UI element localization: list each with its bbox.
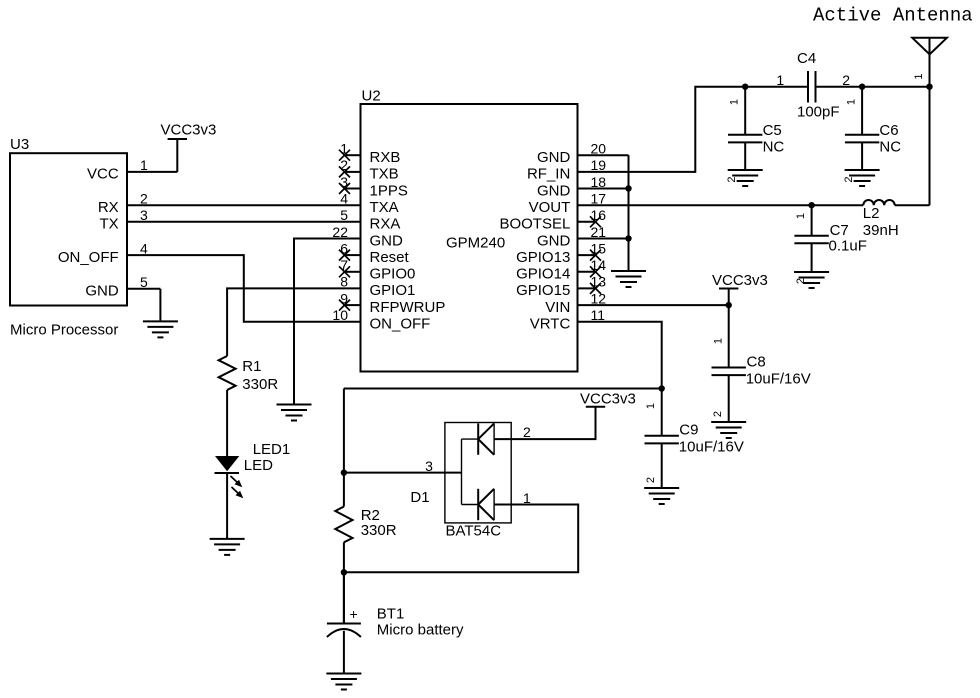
svg-text:330R: 330R bbox=[242, 376, 278, 393]
power symbol VCC3v3 at VIN bbox=[719, 289, 738, 306]
svg-text:VCC3v3: VCC3v3 bbox=[712, 272, 768, 289]
junction at GND pin21 bbox=[625, 235, 631, 241]
resistor R1 bbox=[219, 356, 236, 390]
svg-text:TXA: TXA bbox=[370, 199, 399, 216]
capacitor C8 bbox=[712, 305, 746, 422]
U2 pin 6 stub bbox=[345, 254, 361, 256]
junction at GND pin18 bbox=[625, 185, 631, 191]
svg-text:NC: NC bbox=[879, 139, 901, 156]
U2 pin 3 no-connect X bbox=[339, 183, 350, 194]
op-amp U2 GPM240 box bbox=[361, 104, 578, 372]
svg-text:GND: GND bbox=[537, 182, 571, 199]
ground at U2 pin22 bbox=[277, 405, 312, 421]
junction at D1 pin3 node bbox=[341, 469, 347, 475]
svg-text:BAT54C: BAT54C bbox=[446, 523, 502, 540]
ground at BT1 bbox=[326, 674, 361, 690]
capacitor C7 bbox=[794, 205, 828, 272]
svg-text:20: 20 bbox=[591, 141, 607, 157]
ground at C6 bbox=[845, 170, 880, 186]
svg-text:Micro battery: Micro battery bbox=[377, 621, 464, 638]
ground at C8 bbox=[711, 422, 746, 438]
U2 pin 14 stub bbox=[578, 271, 596, 273]
svg-text:VCC3v3: VCC3v3 bbox=[580, 390, 636, 407]
svg-text:3: 3 bbox=[140, 207, 148, 223]
capacitor C6 bbox=[845, 87, 879, 170]
LED LED1 diode triangle bbox=[215, 456, 239, 471]
U2 pin 7 no-connect X bbox=[339, 266, 350, 277]
wire C4 pin2 to antenna bbox=[816, 86, 930, 88]
svg-text:GND: GND bbox=[537, 232, 571, 249]
U2 pin 13 no-connect X bbox=[590, 283, 601, 294]
wire U2 GPIO1 pin8 to R1 bbox=[227, 288, 360, 356]
wire RX net U3 pin2 to U2 TXA pin4 bbox=[127, 204, 361, 206]
svg-text:+: + bbox=[350, 606, 358, 622]
svg-text:4: 4 bbox=[140, 240, 148, 256]
wire D1 pin1 to battery top node bbox=[344, 505, 578, 573]
svg-text:D1: D1 bbox=[410, 489, 429, 506]
svg-text:C4: C4 bbox=[797, 50, 816, 67]
svg-text:BT1: BT1 bbox=[377, 606, 405, 623]
svg-text:2: 2 bbox=[712, 411, 724, 417]
wire R2 to battery bbox=[343, 542, 345, 622]
junction at C7 top bbox=[808, 202, 814, 208]
svg-text:2: 2 bbox=[726, 176, 738, 182]
svg-text:21: 21 bbox=[591, 224, 607, 240]
U2 pin 13 stub bbox=[578, 287, 596, 289]
ground at U2 GND bus bbox=[611, 271, 646, 287]
svg-text:100pF: 100pF bbox=[797, 104, 840, 121]
svg-text:4: 4 bbox=[340, 191, 348, 207]
antenna Active Antenna symbol bbox=[912, 38, 947, 205]
U2 pin 15 no-connect X bbox=[590, 250, 601, 261]
svg-text:10uF/16V: 10uF/16V bbox=[746, 371, 811, 388]
svg-text:VRTC: VRTC bbox=[530, 316, 571, 333]
svg-text:RX: RX bbox=[98, 199, 119, 216]
junction at C6 top bbox=[859, 84, 865, 90]
ground at C7 bbox=[794, 272, 829, 288]
svg-text:VCC3v3: VCC3v3 bbox=[161, 122, 217, 139]
U2 pin 1 stub bbox=[345, 154, 361, 156]
svg-text:Active Antenna: Active Antenna bbox=[813, 4, 973, 26]
wire GND bus vertical bbox=[628, 155, 630, 271]
U2 pin 6 no-connect X bbox=[339, 250, 350, 261]
junction at battery top node bbox=[341, 569, 347, 575]
U2 pin 9 stub bbox=[345, 304, 361, 306]
svg-text:10: 10 bbox=[332, 307, 348, 323]
wire U3 VCC pin1 to VCC3v3 bbox=[127, 171, 177, 173]
svg-text:GND: GND bbox=[85, 283, 119, 300]
D1 bottom diode cathode bar and triangle bbox=[462, 489, 512, 520]
svg-text:1: 1 bbox=[728, 99, 740, 105]
wire LED1 to ground bbox=[226, 474, 228, 539]
svg-text:12: 12 bbox=[591, 290, 607, 306]
capacitor C9 bbox=[645, 389, 679, 489]
U2 pin 15 stub bbox=[578, 254, 596, 256]
svg-text:2: 2 bbox=[523, 424, 531, 440]
svg-text:1: 1 bbox=[140, 157, 148, 173]
ground at C9 bbox=[644, 488, 679, 504]
diode D1 BAT54C outline box bbox=[445, 423, 511, 523]
U2 pin 3 stub bbox=[345, 188, 361, 190]
wire ON_OFF net U3 pin4 to U2 ON_OFF pin10 bbox=[127, 255, 361, 322]
svg-text:Reset: Reset bbox=[370, 249, 410, 266]
svg-text:RXA: RXA bbox=[370, 216, 401, 233]
junction at C9 top bbox=[659, 385, 665, 391]
svg-text:TX: TX bbox=[100, 216, 119, 233]
svg-text:U3: U3 bbox=[10, 136, 29, 153]
svg-text:RFPWRUP: RFPWRUP bbox=[370, 299, 446, 316]
svg-text:GND: GND bbox=[370, 232, 404, 249]
svg-text:GPIO13: GPIO13 bbox=[516, 249, 570, 266]
svg-text:1: 1 bbox=[645, 403, 657, 409]
svg-text:C5: C5 bbox=[763, 122, 782, 139]
wire R1 to LED1 bbox=[226, 390, 228, 456]
wire battery net vertical top bbox=[343, 389, 345, 507]
svg-text:L2: L2 bbox=[863, 205, 880, 222]
capacitor C4 plates bbox=[808, 71, 816, 103]
wire U2 GND pin21 bbox=[578, 238, 629, 240]
svg-text:1: 1 bbox=[845, 99, 857, 105]
svg-text:ON_OFF: ON_OFF bbox=[370, 316, 431, 333]
power symbol VCC3v3 at D1 pin2 bbox=[586, 406, 605, 408]
svg-text:13: 13 bbox=[591, 274, 607, 290]
svg-text:TXB: TXB bbox=[370, 166, 399, 183]
svg-text:10uF/16V: 10uF/16V bbox=[679, 439, 744, 456]
svg-text:ON_OFF: ON_OFF bbox=[58, 249, 119, 266]
wire U2 VRTC pin11 to battery net bbox=[344, 322, 662, 389]
wire TX net U3 pin3 to U2 RXA pin5 bbox=[127, 221, 361, 223]
svg-text:Micro Processor: Micro Processor bbox=[10, 322, 118, 339]
svg-text:VCC: VCC bbox=[87, 166, 119, 183]
svg-text:5: 5 bbox=[340, 207, 348, 223]
U2 pin 14 no-connect X bbox=[590, 266, 601, 277]
U2 pin 7 stub bbox=[345, 271, 361, 273]
svg-text:LED: LED bbox=[244, 457, 273, 474]
wire U2 VIN pin12 to C8 bbox=[578, 304, 729, 306]
inductor L2 bbox=[863, 200, 894, 205]
svg-text:1PPS: 1PPS bbox=[370, 182, 408, 199]
svg-text:1: 1 bbox=[713, 338, 725, 344]
svg-text:2: 2 bbox=[842, 72, 850, 88]
svg-text:NC: NC bbox=[763, 139, 785, 156]
LED1 cathode bar bbox=[215, 472, 240, 474]
U2 pin 16 stub bbox=[578, 221, 596, 223]
U2 pin 16 no-connect X bbox=[590, 216, 601, 227]
wire U2 RF_IN pin19 to antenna net bbox=[578, 87, 809, 172]
svg-text:RF_IN: RF_IN bbox=[527, 166, 570, 183]
power symbol VCC3v3 at U3 pin 1 bbox=[168, 138, 187, 140]
ground at LED1 bbox=[210, 539, 245, 555]
svg-text:330R: 330R bbox=[361, 522, 397, 539]
svg-text:0.1uF: 0.1uF bbox=[829, 238, 867, 255]
svg-text:GND: GND bbox=[537, 149, 571, 166]
svg-text:U2: U2 bbox=[362, 88, 381, 105]
svg-text:GPIO14: GPIO14 bbox=[516, 266, 570, 283]
battery BT1 symbol bbox=[327, 572, 361, 673]
svg-text:RXB: RXB bbox=[370, 149, 401, 166]
svg-text:22: 22 bbox=[332, 224, 348, 240]
ground at U3 GND bbox=[143, 321, 178, 337]
junction at C5 top bbox=[742, 84, 748, 90]
svg-text:15: 15 bbox=[591, 240, 607, 256]
U2 pin 2 stub bbox=[345, 171, 361, 173]
svg-text:GPIO1: GPIO1 bbox=[370, 282, 416, 299]
wire U2 GND pin20 bbox=[578, 154, 629, 156]
wire U3 GND pin5 to ground bbox=[127, 288, 160, 290]
svg-text:2: 2 bbox=[843, 176, 855, 182]
svg-text:GPM240: GPM240 bbox=[446, 234, 505, 251]
op-amp U3 Micro Processor box bbox=[10, 153, 127, 305]
wire D1 pin2 to VCC3v3 bbox=[511, 407, 595, 439]
U2 pin 1 no-connect X bbox=[339, 150, 350, 161]
svg-text:C8: C8 bbox=[747, 354, 766, 371]
D1 internal common vertical wire bbox=[461, 439, 463, 504]
D1 top diode cathode bar and triangle bbox=[462, 423, 512, 454]
svg-text:39nH: 39nH bbox=[863, 222, 899, 239]
svg-text:11: 11 bbox=[591, 307, 606, 323]
svg-text:GPIO0: GPIO0 bbox=[370, 266, 416, 283]
svg-text:1: 1 bbox=[523, 490, 531, 506]
ground at C5 bbox=[728, 170, 763, 186]
svg-text:VOUT: VOUT bbox=[529, 199, 571, 216]
svg-text:17: 17 bbox=[591, 191, 607, 207]
U2 pin 2 no-connect X bbox=[339, 166, 350, 177]
svg-text:C9: C9 bbox=[679, 422, 698, 439]
svg-text:1: 1 bbox=[913, 73, 925, 79]
svg-text:R1: R1 bbox=[242, 358, 261, 375]
svg-text:GPIO15: GPIO15 bbox=[516, 282, 570, 299]
junction at VIN C8 node bbox=[726, 302, 732, 308]
wire L2 to antenna node bbox=[895, 204, 930, 206]
junction at antenna node bbox=[926, 84, 932, 90]
svg-text:19: 19 bbox=[591, 157, 607, 173]
svg-text:LED1: LED1 bbox=[253, 441, 291, 458]
svg-text:16: 16 bbox=[591, 207, 607, 223]
svg-text:VIN: VIN bbox=[545, 299, 570, 316]
svg-text:18: 18 bbox=[591, 174, 607, 190]
wire U2 GND pin18 bbox=[578, 188, 629, 190]
wire D1 pin3 from battery net bbox=[344, 472, 462, 474]
svg-text:14: 14 bbox=[591, 257, 607, 273]
LED1 emission arrow 2 bbox=[232, 487, 244, 498]
svg-text:2: 2 bbox=[645, 477, 657, 483]
svg-text:C6: C6 bbox=[879, 122, 898, 139]
svg-text:5: 5 bbox=[140, 274, 148, 290]
svg-text:BOOTSEL: BOOTSEL bbox=[499, 216, 570, 233]
resistor R2 bbox=[335, 507, 352, 543]
LED1 emission arrow 1 bbox=[231, 476, 243, 487]
capacitor C5 bbox=[728, 87, 762, 170]
svg-text:1: 1 bbox=[776, 72, 784, 88]
wire U2 VOUT pin17 to L2 bbox=[578, 204, 864, 206]
svg-text:C7: C7 bbox=[830, 222, 849, 239]
wire U2 GND pin22 to ground bbox=[294, 239, 361, 405]
svg-text:3: 3 bbox=[425, 458, 433, 474]
svg-text:2: 2 bbox=[140, 191, 148, 207]
svg-text:1: 1 bbox=[795, 213, 807, 219]
svg-text:8: 8 bbox=[340, 274, 348, 290]
U2 pin 9 no-connect X bbox=[339, 300, 350, 311]
